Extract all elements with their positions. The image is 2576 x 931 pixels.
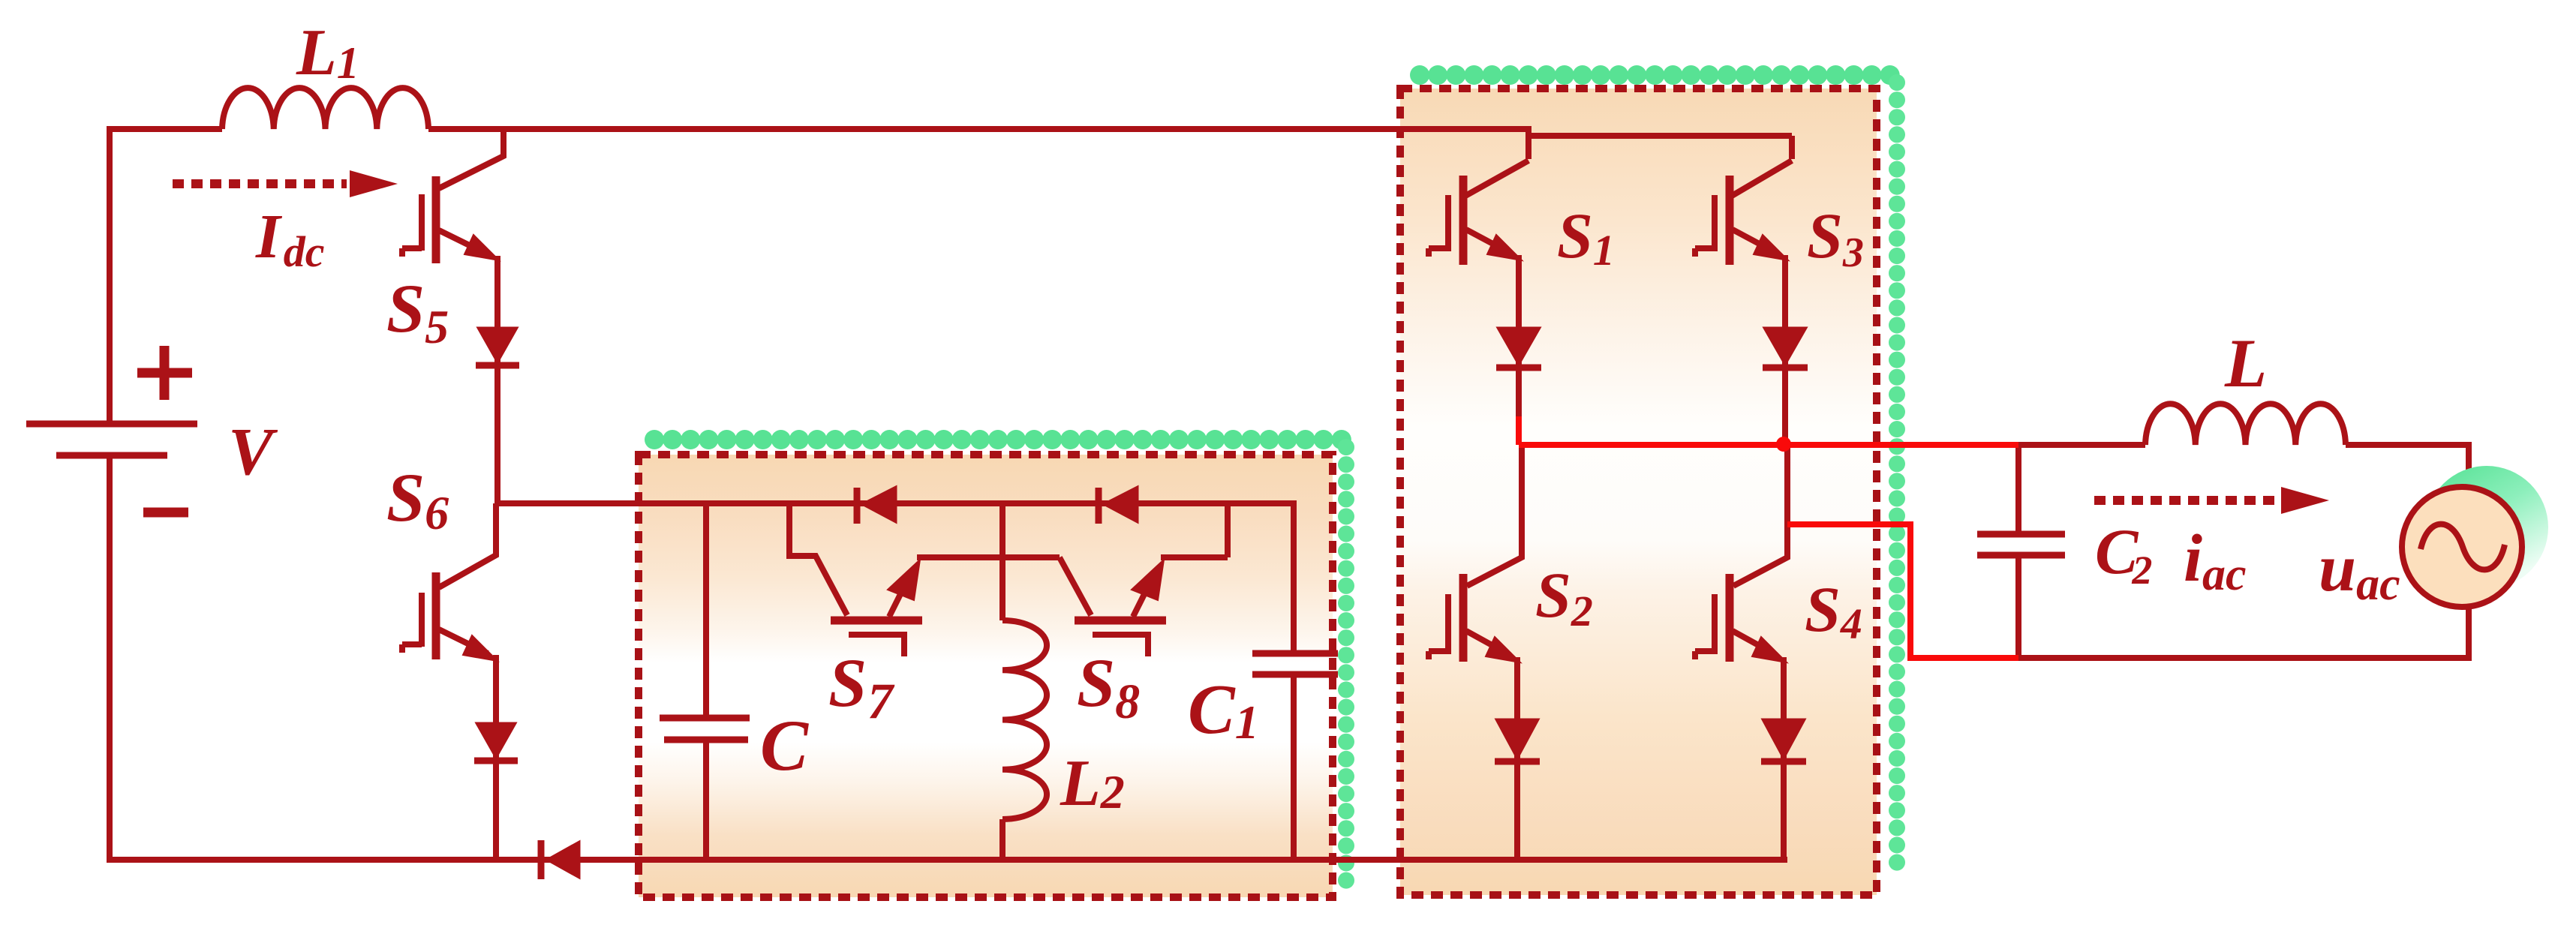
capacitor C plates — [660, 718, 750, 740]
node: S6 / resonant-block input, horizontal wire y=671 — [496, 503, 1294, 650]
wire: S1 leg red segment — [1516, 416, 1522, 445]
wire: battery minus down to bottom rail — [110, 458, 1787, 860]
I_dc current arrow (dashed) — [173, 179, 347, 188]
transistor S1 (IGBT) — [1429, 161, 1528, 265]
transistor S6 (IGBT) — [402, 503, 497, 661]
battery V plate long (+) — [26, 421, 197, 428]
diode D8 (points left, on resonant top wire) — [1099, 487, 1138, 524]
diode S2 series (points down) — [1495, 719, 1540, 761]
inductor L — [2145, 404, 2346, 445]
transistor S4 (IGBT) — [1695, 443, 1787, 662]
diode S1 series (points down) — [1496, 328, 1541, 368]
AC source u_ac: sine wave — [2421, 524, 2505, 570]
AC source u_ac: green shadow circle — [2425, 466, 2548, 589]
wire: C2 top to inductor L — [2018, 442, 2145, 448]
bright red wire: S3/S4 node to C2 bottom — [1787, 524, 2018, 658]
wire: S4 emitter down to bottom rail — [1781, 657, 1787, 860]
wire: S1 emitter down to mid node — [1516, 255, 1522, 416]
diode D0 on bottom rail (points left) — [541, 840, 579, 879]
node: junction at x=1336 (top wire to L2 top) — [999, 503, 1005, 620]
capacitor C1 plates — [1252, 653, 1338, 674]
middle resonant block background — [639, 455, 1333, 897]
AC source u_ac: body circle — [2402, 487, 2522, 607]
H-bridge block background — [1400, 89, 1877, 895]
wire: S7 emitter line to S8 collector — [917, 554, 1060, 560]
wire: S2 emitter down to bottom rail — [1514, 657, 1520, 860]
wire: S3 emitter down to mid node — [1782, 255, 1788, 439]
wire: S5 emitter down to S6 node — [494, 256, 500, 503]
transistor S5 (IGBT) — [402, 126, 503, 263]
svg-text:V: V — [228, 415, 278, 489]
diode S3 series (points down) — [1763, 328, 1808, 368]
capacitor C2 leg wires — [2015, 445, 2021, 658]
i_ac current arrow (dashed) — [2094, 496, 2280, 505]
inductor L2 — [1002, 620, 1047, 819]
capacitor C1 leg wires — [1291, 677, 1297, 860]
capacitor C2 plates — [1977, 534, 2065, 555]
green dotted shadow border (middle resonant block, right) — [1338, 447, 1354, 884]
svg-text:L: L — [2224, 325, 2267, 401]
transistor S2 (IGBT) — [1429, 443, 1522, 662]
bright red wire: bridge mid output to C2 — [1519, 416, 2018, 658]
diode S5 series (points down) — [476, 328, 519, 365]
battery minus sign — [143, 508, 188, 518]
capacitor C leg wires — [703, 503, 709, 860]
diode D7 (points left, on resonant top wire) — [857, 487, 896, 524]
H-bridge inner top wire with jog — [1528, 126, 1792, 159]
H-bridge block dashed border — [1400, 89, 1877, 895]
transistor S8 (IGBT, rotated) — [1060, 557, 1166, 656]
diode S6 series (points down) — [474, 723, 518, 761]
wire: S8 emitter line and stub up to top wire — [1161, 503, 1228, 557]
svg-text:C: C — [760, 705, 809, 785]
wire: L to AC source — [2346, 445, 2469, 488]
wire: L2 bottom to bottom rail — [999, 819, 1005, 860]
green dotted shadow border (H-bridge block, top) — [1420, 65, 1897, 85]
wire: S6 emitter down to bottom rail — [493, 655, 499, 860]
inductor L1 — [222, 88, 428, 129]
transistor S3 (IGBT) — [1695, 161, 1792, 265]
wire: AC source bottom to bottom return — [2018, 608, 2469, 658]
green dotted shadow border (middle resonant block, top) — [654, 430, 1349, 449]
transistor S7 (IGBT, rotated) — [789, 503, 922, 656]
green dotted shadow border (H-bridge block, right) — [1889, 83, 1905, 878]
middle resonant block dashed border — [639, 455, 1333, 897]
battery plus sign — [137, 346, 192, 400]
node junction dot (red) — [1776, 437, 1791, 452]
diode S4 series (points down) — [1761, 719, 1806, 761]
wire: top rail from battery corner to H-bridge — [110, 129, 1528, 422]
battery V plate short (-) — [56, 452, 167, 459]
